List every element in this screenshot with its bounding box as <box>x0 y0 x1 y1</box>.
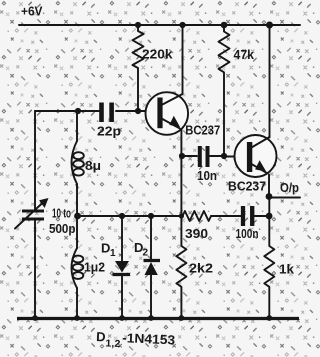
svg-text:2: 2 <box>143 248 149 259</box>
svg-text:220k: 220k <box>142 47 173 62</box>
svg-text:1μ2: 1μ2 <box>84 260 105 275</box>
svg-text:10n: 10n <box>197 168 217 183</box>
svg-text:O/p: O/p <box>280 180 299 195</box>
svg-text:1: 1 <box>110 248 116 259</box>
svg-text:BC237: BC237 <box>185 123 220 138</box>
svg-text:-1N4153: -1N4153 <box>122 330 176 347</box>
svg-text:47k: 47k <box>234 47 255 62</box>
svg-text:22p: 22p <box>97 124 121 139</box>
svg-text:D: D <box>96 329 106 344</box>
svg-text:100n: 100n <box>236 226 259 241</box>
svg-text:500p: 500p <box>49 221 76 236</box>
svg-text:8μ: 8μ <box>85 158 101 173</box>
svg-text:390: 390 <box>185 226 208 241</box>
svg-text:D: D <box>101 241 110 256</box>
svg-text:+6V: +6V <box>21 4 43 19</box>
svg-text:2k2: 2k2 <box>189 261 213 276</box>
svg-text:1,2: 1,2 <box>105 338 121 350</box>
svg-text:1k: 1k <box>279 262 295 277</box>
svg-text:BC237: BC237 <box>228 179 266 194</box>
svg-text:10 to: 10 to <box>52 206 71 221</box>
